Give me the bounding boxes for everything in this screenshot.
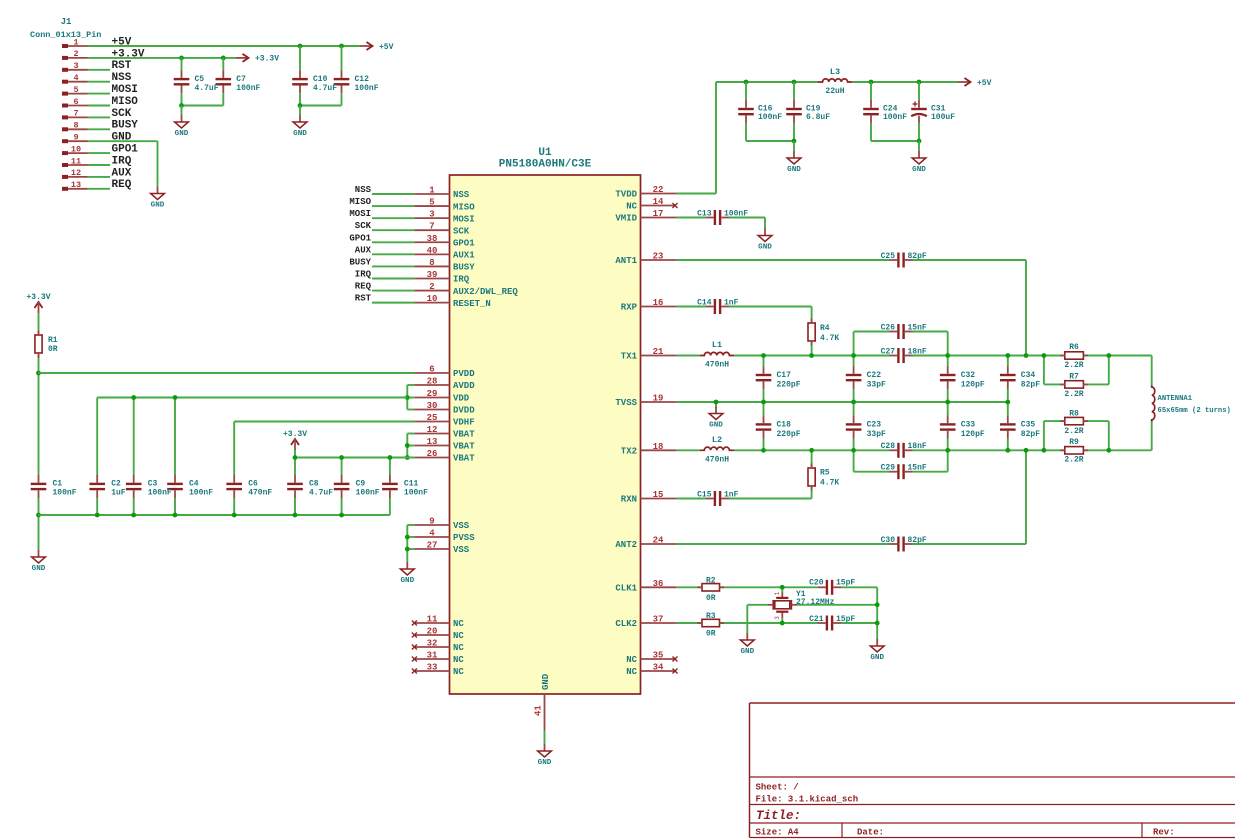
svg-text:C21: C21	[809, 615, 824, 624]
svg-text:31: 31	[427, 651, 438, 661]
svg-text:100nF: 100nF	[758, 113, 782, 122]
svg-text:GPO1: GPO1	[349, 233, 371, 243]
svg-text:2.2R: 2.2R	[1064, 427, 1083, 436]
svg-text:C4: C4	[189, 480, 199, 489]
svg-text:AUX2/DWL_REQ: AUX2/DWL_REQ	[453, 287, 518, 297]
svg-text:120pF: 120pF	[961, 430, 985, 439]
svg-text:VDD: VDD	[453, 394, 470, 404]
svg-text:AUX1: AUX1	[453, 251, 475, 261]
svg-text:GND: GND	[870, 654, 884, 662]
svg-text:VBAT: VBAT	[453, 442, 475, 452]
svg-text:15nF: 15nF	[908, 323, 927, 332]
svg-text:VSS: VSS	[453, 521, 470, 531]
svg-text:ANT1: ANT1	[615, 256, 637, 266]
svg-text:16: 16	[653, 298, 664, 308]
svg-text:5: 5	[73, 85, 78, 95]
svg-text:470nH: 470nH	[705, 361, 729, 370]
svg-text:AUX: AUX	[355, 245, 372, 255]
svg-text:1nF: 1nF	[724, 490, 739, 499]
svg-text:NC: NC	[626, 667, 637, 677]
svg-text:GND: GND	[758, 243, 772, 251]
svg-text:U1: U1	[538, 147, 552, 159]
svg-text:R2: R2	[706, 576, 716, 585]
svg-text:NC: NC	[453, 619, 464, 629]
svg-text:GPO1: GPO1	[112, 144, 139, 156]
svg-text:C33: C33	[961, 420, 976, 429]
svg-text:21: 21	[653, 347, 664, 357]
svg-text:4.7K: 4.7K	[820, 334, 839, 343]
svg-text:4: 4	[429, 529, 435, 539]
svg-text:R6: R6	[1069, 343, 1079, 352]
svg-text:NSS: NSS	[355, 185, 372, 195]
svg-text:C28: C28	[881, 442, 896, 451]
svg-text:NSS: NSS	[112, 72, 132, 84]
svg-text:Sheet: /: Sheet: /	[756, 783, 799, 793]
svg-text:C3: C3	[148, 480, 158, 489]
svg-text:C6: C6	[248, 480, 258, 489]
svg-text:GND: GND	[293, 130, 307, 138]
svg-text:220pF: 220pF	[777, 430, 801, 439]
svg-text:17: 17	[653, 209, 664, 219]
svg-text:MOSI: MOSI	[112, 84, 138, 96]
svg-text:11: 11	[71, 156, 81, 166]
svg-text:NC: NC	[453, 655, 464, 665]
svg-text:12: 12	[71, 168, 81, 178]
svg-text:C35: C35	[1021, 420, 1036, 429]
svg-text:7: 7	[73, 109, 78, 119]
svg-text:65x65mm (2 turns): 65x65mm (2 turns)	[1158, 407, 1231, 415]
svg-text:82pF: 82pF	[908, 252, 927, 261]
svg-text:18nF: 18nF	[908, 442, 927, 451]
svg-text:R3: R3	[706, 612, 716, 621]
svg-text:Conn_01x13_Pin: Conn_01x13_Pin	[30, 30, 101, 40]
svg-text:R4: R4	[820, 324, 830, 333]
svg-text:18nF: 18nF	[908, 347, 927, 356]
svg-text:GND: GND	[912, 166, 926, 174]
svg-text:File: 3.1.kicad_sch: File: 3.1.kicad_sch	[756, 795, 859, 805]
svg-text:RXN: RXN	[621, 495, 637, 505]
svg-text:7: 7	[429, 222, 434, 232]
svg-text:R7: R7	[1069, 373, 1079, 382]
svg-text:R9: R9	[1069, 438, 1079, 447]
svg-text:22: 22	[653, 185, 664, 195]
svg-text:40: 40	[427, 246, 438, 256]
svg-text:1: 1	[73, 37, 78, 47]
svg-text:R8: R8	[1069, 410, 1079, 419]
svg-text:C30: C30	[881, 536, 896, 545]
svg-text:C2: C2	[111, 480, 121, 489]
svg-text:SCK: SCK	[453, 226, 470, 236]
svg-text:23: 23	[653, 252, 664, 262]
svg-text:4: 4	[73, 73, 78, 83]
svg-text:AVDD: AVDD	[453, 381, 475, 391]
svg-text:6: 6	[73, 97, 78, 107]
svg-text:RXP: RXP	[621, 303, 638, 313]
svg-text:RESET_N: RESET_N	[453, 299, 491, 309]
svg-text:NC: NC	[453, 631, 464, 641]
svg-text:Date:: Date:	[857, 828, 884, 838]
svg-text:33pF: 33pF	[867, 430, 886, 439]
svg-text:C23: C23	[867, 420, 882, 429]
svg-text:REQ: REQ	[355, 282, 372, 292]
svg-text:37: 37	[653, 615, 664, 625]
svg-text:GND: GND	[541, 673, 551, 690]
svg-text:11: 11	[427, 615, 438, 625]
svg-text:35: 35	[653, 651, 664, 661]
svg-text:41: 41	[534, 705, 544, 716]
svg-text:C12: C12	[355, 75, 370, 84]
svg-text:1nF: 1nF	[724, 298, 739, 307]
svg-text:3: 3	[429, 210, 434, 220]
svg-text:PVSS: PVSS	[453, 533, 475, 543]
svg-text:C32: C32	[961, 371, 976, 380]
svg-text:+3.3V: +3.3V	[255, 55, 279, 64]
svg-text:5: 5	[429, 198, 434, 208]
svg-text:13: 13	[427, 437, 438, 447]
svg-text:+5V: +5V	[977, 79, 992, 88]
svg-text:2: 2	[429, 282, 434, 292]
svg-text:VMID: VMID	[615, 214, 637, 224]
svg-text:100nF: 100nF	[724, 209, 748, 218]
svg-text:NC: NC	[453, 667, 464, 677]
svg-text:15nF: 15nF	[908, 464, 927, 473]
svg-text:2.2R: 2.2R	[1064, 456, 1083, 465]
svg-text:14: 14	[653, 197, 664, 207]
svg-text:IRQ: IRQ	[453, 275, 470, 285]
svg-text:C17: C17	[777, 371, 792, 380]
svg-text:100nF: 100nF	[53, 489, 77, 498]
svg-text:+3.3V: +3.3V	[26, 293, 50, 302]
svg-text:82pF: 82pF	[908, 536, 927, 545]
svg-text:VBAT: VBAT	[453, 454, 475, 464]
svg-text:L3: L3	[830, 67, 840, 77]
svg-text:24: 24	[653, 536, 664, 546]
svg-text:2.2R: 2.2R	[1064, 361, 1083, 370]
svg-text:100nF: 100nF	[404, 489, 428, 498]
svg-text:BUSY: BUSY	[453, 263, 475, 273]
svg-text:10: 10	[71, 144, 81, 154]
svg-text:C15: C15	[697, 490, 712, 499]
svg-text:15pF: 15pF	[836, 615, 855, 624]
svg-text:27.12MHz: 27.12MHz	[796, 598, 835, 607]
svg-text:28: 28	[427, 377, 438, 387]
svg-text:ANT2: ANT2	[615, 540, 637, 550]
svg-text:4.7uF: 4.7uF	[313, 84, 337, 93]
svg-text:470nH: 470nH	[705, 456, 729, 465]
svg-text:470nF: 470nF	[248, 489, 272, 498]
svg-text:C10: C10	[313, 75, 328, 84]
svg-text:MOSI: MOSI	[453, 214, 475, 224]
svg-text:27: 27	[427, 541, 438, 551]
svg-text:RST: RST	[355, 294, 372, 304]
svg-text:R5: R5	[820, 469, 830, 478]
svg-text:0R: 0R	[706, 594, 716, 603]
svg-text:9: 9	[73, 133, 78, 143]
svg-text:Size: A4: Size: A4	[756, 828, 800, 838]
svg-text:GND: GND	[740, 648, 754, 656]
svg-text:C29: C29	[881, 464, 896, 473]
svg-text:4.7uF: 4.7uF	[195, 84, 219, 93]
svg-text:C11: C11	[404, 480, 419, 489]
svg-text:+3.3V: +3.3V	[283, 430, 307, 439]
svg-text:100nF: 100nF	[355, 84, 379, 93]
svg-text:9: 9	[429, 517, 434, 527]
svg-text:100nF: 100nF	[356, 489, 380, 498]
svg-text:34: 34	[653, 663, 664, 673]
svg-text:R1: R1	[48, 336, 58, 345]
svg-text:GND: GND	[400, 577, 414, 585]
svg-text:32: 32	[427, 639, 438, 649]
svg-text:33: 33	[427, 663, 438, 673]
svg-text:220pF: 220pF	[777, 381, 801, 390]
svg-text:82pF: 82pF	[1021, 430, 1040, 439]
svg-text:VSS: VSS	[453, 545, 470, 555]
svg-text:15pF: 15pF	[836, 578, 855, 587]
svg-text:CLK1: CLK1	[615, 584, 637, 594]
svg-text:30: 30	[427, 401, 438, 411]
svg-text:MISO: MISO	[453, 202, 475, 212]
svg-text:L1: L1	[712, 340, 722, 350]
svg-text:C27: C27	[881, 347, 896, 356]
svg-text:REQ: REQ	[112, 179, 132, 191]
svg-text:DVDD: DVDD	[453, 406, 475, 416]
svg-text:MISO: MISO	[349, 197, 371, 207]
svg-text:GND: GND	[175, 130, 189, 138]
svg-text:100nF: 100nF	[883, 113, 907, 122]
svg-text:C14: C14	[697, 298, 712, 307]
svg-text:13: 13	[71, 180, 81, 190]
svg-text:MISO: MISO	[112, 96, 139, 108]
svg-text:RST: RST	[112, 60, 132, 72]
svg-text:4.7uF: 4.7uF	[309, 489, 333, 498]
svg-text:20: 20	[427, 627, 438, 637]
svg-text:L2: L2	[712, 435, 722, 445]
svg-text:15: 15	[653, 490, 664, 500]
svg-text:1: 1	[429, 186, 435, 196]
svg-text:GND: GND	[151, 201, 165, 209]
svg-text:120pF: 120pF	[961, 381, 985, 390]
svg-text:TVSS: TVSS	[615, 398, 637, 408]
svg-text:J1: J1	[61, 17, 72, 27]
svg-text:IRQ: IRQ	[112, 155, 132, 167]
svg-text:2.2R: 2.2R	[1064, 390, 1083, 399]
svg-text:+5V: +5V	[379, 43, 394, 52]
svg-text:NSS: NSS	[453, 190, 470, 200]
svg-text:GPO1: GPO1	[453, 238, 475, 248]
svg-text:82pF: 82pF	[1021, 381, 1040, 390]
svg-text:C20: C20	[809, 578, 824, 587]
svg-text:C34: C34	[1021, 371, 1036, 380]
svg-text:36: 36	[653, 579, 664, 589]
svg-text:3: 3	[73, 61, 78, 71]
svg-text:8: 8	[429, 258, 434, 268]
svg-text:12: 12	[427, 425, 438, 435]
svg-text:PN5180A0HN/C3E: PN5180A0HN/C3E	[499, 159, 592, 171]
svg-text:38: 38	[427, 234, 438, 244]
svg-text:29: 29	[427, 389, 438, 399]
svg-text:Title:: Title:	[756, 809, 801, 823]
svg-text:ANTENNA1: ANTENNA1	[1158, 395, 1193, 403]
svg-text:C5: C5	[195, 75, 205, 84]
svg-text:NC: NC	[626, 655, 637, 665]
svg-text:C8: C8	[309, 480, 319, 489]
svg-text:C25: C25	[881, 252, 896, 261]
svg-text:C26: C26	[881, 323, 896, 332]
svg-text:4.7K: 4.7K	[820, 479, 839, 488]
svg-text:MOSI: MOSI	[349, 209, 371, 219]
svg-text:C13: C13	[697, 209, 712, 218]
svg-text:TVDD: TVDD	[615, 190, 637, 200]
svg-text:C18: C18	[777, 420, 792, 429]
svg-text:19: 19	[653, 394, 664, 404]
svg-text:GND: GND	[538, 759, 552, 767]
svg-text:39: 39	[427, 270, 438, 280]
svg-text:NC: NC	[453, 643, 464, 653]
svg-text:C1: C1	[53, 480, 63, 489]
svg-text:33pF: 33pF	[867, 381, 886, 390]
svg-text:AUX: AUX	[112, 167, 132, 179]
svg-text:Rev:: Rev:	[1153, 828, 1175, 838]
svg-text:100nF: 100nF	[148, 489, 172, 498]
svg-text:8: 8	[73, 121, 78, 131]
svg-text:2: 2	[73, 49, 78, 59]
svg-text:C9: C9	[356, 480, 366, 489]
svg-text:SCK: SCK	[355, 221, 372, 231]
svg-text:NC: NC	[626, 202, 637, 212]
svg-text:26: 26	[427, 449, 438, 459]
svg-text:SCK: SCK	[112, 108, 132, 120]
svg-text:IRQ: IRQ	[355, 269, 372, 279]
svg-text:6.8uF: 6.8uF	[806, 113, 830, 122]
svg-text:1: 1	[774, 591, 781, 595]
svg-text:0R: 0R	[48, 345, 58, 354]
svg-text:100nF: 100nF	[236, 84, 260, 93]
svg-text:BUSY: BUSY	[349, 257, 371, 267]
svg-text:BUSY: BUSY	[112, 120, 139, 132]
svg-text:C7: C7	[236, 75, 246, 84]
svg-text:3: 3	[774, 616, 781, 620]
svg-text:VDHF: VDHF	[453, 418, 475, 428]
svg-text:CLK2: CLK2	[615, 619, 637, 629]
svg-text:6: 6	[429, 365, 434, 375]
svg-text:100nF: 100nF	[189, 489, 213, 498]
svg-text:GND: GND	[709, 421, 723, 429]
svg-text:18: 18	[653, 442, 664, 452]
svg-text:GND: GND	[787, 166, 801, 174]
svg-text:C22: C22	[867, 371, 882, 380]
svg-text:TX2: TX2	[621, 447, 637, 457]
svg-text:25: 25	[427, 413, 438, 423]
svg-text:1uF: 1uF	[111, 489, 126, 498]
svg-text:100uF: 100uF	[931, 113, 955, 122]
svg-text:TX1: TX1	[621, 352, 638, 362]
svg-text:GND: GND	[32, 565, 46, 573]
svg-text:VBAT: VBAT	[453, 430, 475, 440]
svg-text:0R: 0R	[706, 630, 716, 639]
svg-text:PVDD: PVDD	[453, 369, 475, 379]
svg-text:10: 10	[427, 294, 438, 304]
svg-text:22uH: 22uH	[825, 87, 844, 96]
